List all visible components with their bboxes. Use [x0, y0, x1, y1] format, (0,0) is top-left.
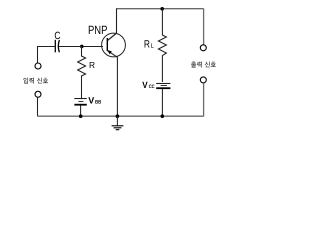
svg-text:L: L [151, 42, 155, 49]
wire: VCC to bottom rail [161, 89, 163, 116]
battery VCC: top long plate [156, 82, 170, 84]
battery VBB: bottom long plate [74, 104, 86, 106]
svg-text:BB: BB [95, 100, 102, 106]
terminal: output bottom circle [200, 77, 206, 83]
wire: VBB to bottom rail [80, 105, 82, 116]
battery VCC: middle short plate [161, 85, 167, 87]
svg-text:R: R [89, 60, 95, 70]
svg-text:CC: CC [149, 84, 155, 90]
wire: output bottom lead to bottom rail [203, 83, 205, 116]
wire: base wire from junction to transistor [82, 46, 104, 48]
wire: input bottom lead to bottom rail [37, 97, 39, 116]
battery VCC: bottom long plate [156, 87, 170, 89]
node: junction VBB / bottom rail [79, 114, 83, 118]
wire: input top lead [37, 46, 39, 63]
battery VBB: middle short plate [78, 101, 83, 103]
wire: input to capacitor [37, 46, 55, 48]
resistor R: zigzag [78, 46, 86, 98]
wire: output top lead from top rail [203, 9, 205, 45]
transistor Q1: collector diagonal [108, 33, 117, 41]
battery VBB: top long plate [74, 98, 86, 100]
node: junction top rail / RL [160, 7, 164, 11]
svg-text:PNP: PNP [88, 23, 107, 37]
terminal: input bottom circle [35, 91, 41, 97]
wire: emitter lead down to bottom rail [116, 57, 118, 116]
capacitor C: left plate [54, 40, 56, 53]
wire: top rail [116, 8, 204, 10]
capacitor C: right curved plate [58, 40, 59, 52]
transistor Q1: emitter diagonal with arrow into base [107, 50, 117, 57]
svg-text:V: V [88, 96, 94, 106]
wire: ground stub [116, 116, 118, 126]
node: junction base / R [80, 45, 84, 49]
terminal: input top circle [35, 63, 41, 69]
wire: bottom rail [37, 115, 203, 117]
transistor Q1: base bar [106, 38, 108, 51]
label output signal [191, 61, 196, 67]
resistor RL: lead from top rail and zigzag [158, 9, 166, 82]
wire: capacitor to junction [59, 46, 82, 48]
node: junction VCC / bottom rail [161, 114, 165, 118]
svg-text:C: C [54, 30, 60, 42]
terminal: output top circle [200, 45, 206, 51]
ground [112, 125, 124, 127]
transistor Q1 PNP: circle [102, 33, 126, 57]
svg-text:R: R [144, 39, 150, 51]
wire: collector lead up to top rail [116, 9, 118, 34]
svg-text:V: V [142, 80, 147, 90]
label input signal [23, 78, 28, 84]
node: junction emitter / bottom rail [116, 114, 120, 118]
